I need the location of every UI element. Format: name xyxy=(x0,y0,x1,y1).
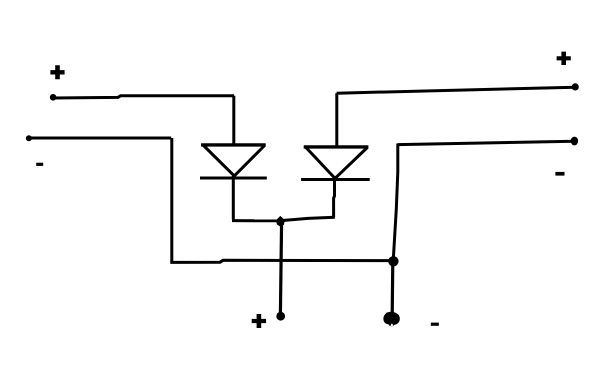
junction node (bottom right rail) xyxy=(388,256,398,266)
wire: left - terminal horizontal to corner xyxy=(29,137,171,140)
label - (right AC input) xyxy=(555,172,564,176)
wire: D1 cathode down xyxy=(232,176,235,220)
terminal dot (left -) xyxy=(26,135,32,141)
terminal blob (bottom - output) xyxy=(383,312,399,326)
junction node (cathodes common point) xyxy=(276,216,285,227)
wire: right vertical down to bottom junction xyxy=(393,144,398,262)
wire: D2 cathode down with jog xyxy=(332,179,336,218)
wire: left vertical down to bottom rail xyxy=(170,138,173,263)
label - (bottom DC output) xyxy=(431,323,439,326)
terminal dot (top-right +) xyxy=(572,83,579,90)
diode D1 (left, anode top / cathode bar bottom) xyxy=(200,145,267,178)
wire: center junction down to + output xyxy=(280,221,281,314)
wire: D1 cathode to center junction xyxy=(232,219,280,222)
label + (top-left AC input) xyxy=(50,65,64,79)
wire: right - terminal to corner xyxy=(398,141,575,144)
terminal dot (bottom + output) xyxy=(276,312,285,321)
label + (bottom DC output) xyxy=(252,314,266,328)
wire: junction down to - output xyxy=(391,261,395,314)
label - (left AC input) xyxy=(36,163,43,166)
wire: top-left + terminal to corner above D1 xyxy=(53,96,234,98)
wire: top-right + terminal to corner above D2 xyxy=(337,87,575,93)
diode D2 (right, anode top / cathode bar bottom) xyxy=(301,147,370,180)
wire: D2 cathode leftwards to center junction xyxy=(281,217,335,220)
terminal dot (right -) xyxy=(571,137,578,146)
wire: bottom rail from left vertical to right junction xyxy=(170,260,393,262)
wire: vertical down into D1 anode xyxy=(232,96,235,146)
label + (top-right AC input) xyxy=(557,52,571,65)
wire: vertical down into D2 anode xyxy=(335,93,338,147)
terminal dot (top-left +) xyxy=(50,94,57,101)
